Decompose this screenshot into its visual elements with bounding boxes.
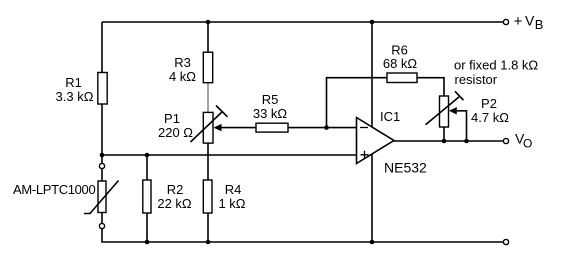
- wire R5 to op-amp - input: [288, 127, 357, 129]
- svg-text:R4: R4: [225, 182, 242, 197]
- wire R5 node up to R6 left: [327, 78, 388, 128]
- wire P1 to R4 (crosses mid rail, no dot): [207, 143, 209, 180]
- svg-text:P2: P2: [481, 96, 497, 111]
- wire R6 right down to P2 top: [417, 78, 444, 96]
- svg-text:22 kΩ: 22 kΩ: [157, 196, 192, 211]
- svg-text:R1: R1: [65, 75, 82, 90]
- potentiometer P2 body: [440, 96, 449, 127]
- junction output / P2 bottom: [442, 139, 447, 144]
- wire mid rail to op-amp + input: [102, 154, 357, 156]
- junction bottom rail / op-amp supply: [370, 240, 375, 245]
- wire thermistor upper lead: [101, 169, 103, 181]
- P1 wiper arrowhead: [214, 124, 222, 131]
- op-amp U1 triangle: [357, 118, 395, 164]
- svg-text:or fixed 1.8 kΩ: or fixed 1.8 kΩ: [454, 58, 538, 73]
- thermistor AM-LPTC1000 body: [98, 181, 106, 213]
- svg-text:AM-LPTC1000: AM-LPTC1000: [13, 182, 95, 197]
- svg-text:3.3 kΩ: 3.3 kΩ: [56, 89, 94, 104]
- op-amp minus sign: [360, 127, 368, 129]
- resistor R2: [143, 180, 151, 213]
- wire top rail to R3: [207, 22, 209, 52]
- wire left column R1 branch: [101, 22, 103, 73]
- svg-text:R2: R2: [167, 182, 184, 197]
- junction mid rail / R2: [145, 153, 150, 158]
- svg-text:IC1: IC1: [380, 109, 400, 124]
- svg-text:68 kΩ: 68 kΩ: [383, 56, 418, 71]
- wire P1 wiper to R5: [221, 127, 257, 129]
- wire top rail: [102, 21, 503, 23]
- svg-text:R5: R5: [262, 92, 279, 107]
- resistor R1: [98, 73, 107, 105]
- svg-text:4 kΩ: 4 kΩ: [169, 69, 196, 84]
- wire R2 branch top: [146, 155, 148, 180]
- junction bottom rail / R4: [206, 240, 211, 245]
- junction top rail / op-amp supply: [370, 20, 375, 25]
- svg-text:V: V: [525, 12, 535, 28]
- resistor R3: [203, 52, 212, 82]
- wire R1 to mid-rail junction: [101, 104, 103, 163]
- svg-text:NE532: NE532: [384, 160, 427, 176]
- resistor R4: [203, 180, 212, 213]
- resistor R5: [256, 123, 288, 132]
- wire lower terminal to bottom rail: [102, 229, 503, 242]
- potentiometer P2 trimmer diagonal: [426, 97, 460, 125]
- potentiometer P1 trimmer diagonal: [191, 112, 223, 143]
- junction R5 / R6 leg: [324, 125, 329, 130]
- potentiometer P2 trimmer bar: [455, 91, 464, 100]
- wire op-amp output rail: [394, 140, 503, 142]
- svg-text:1 kΩ: 1 kΩ: [218, 196, 245, 211]
- svg-text:resistor: resistor: [455, 72, 498, 87]
- wire op-amp supply vertical: [371, 22, 373, 242]
- potentiometer P1 body: [203, 112, 213, 143]
- svg-text:4.7 kΩ: 4.7 kΩ: [471, 110, 509, 125]
- terminal thermistor lower: [99, 223, 104, 228]
- wire P2 bottom to output rail: [443, 127, 445, 141]
- wire gray segment R3 to P1: [207, 83, 209, 113]
- svg-text:R3: R3: [174, 55, 191, 70]
- terminal thermistor upper: [99, 163, 104, 168]
- terminal VO: [503, 138, 508, 143]
- junction bottom rail / R2: [145, 240, 150, 245]
- svg-text:B: B: [535, 17, 544, 32]
- junction top rail / R3: [206, 20, 211, 25]
- P2 wiper arrowhead: [449, 107, 457, 114]
- wire thermistor lower lead: [101, 213, 103, 224]
- potentiometer P1 trimmer bar: [216, 106, 228, 117]
- wire R2 branch bottom: [146, 213, 148, 242]
- terminal +VB: [503, 19, 508, 24]
- op-amp plus sign: [361, 151, 369, 159]
- terminal bottom: [503, 239, 508, 244]
- svg-text:220 Ω: 220 Ω: [158, 125, 193, 140]
- svg-text:33 kΩ: 33 kΩ: [253, 106, 288, 121]
- wire R4 to bottom rail: [207, 213, 209, 242]
- svg-text:P1: P1: [164, 111, 180, 126]
- thermistor diagonal stroke: [84, 181, 119, 214]
- junction mid rail / thermistor: [100, 153, 105, 158]
- wire P2 wiper to output rail: [456, 111, 467, 141]
- svg-text:O: O: [523, 136, 532, 150]
- svg-text:+: +: [514, 13, 523, 30]
- resistor R6: [387, 73, 417, 83]
- junction output / P2 wiper: [464, 139, 469, 144]
